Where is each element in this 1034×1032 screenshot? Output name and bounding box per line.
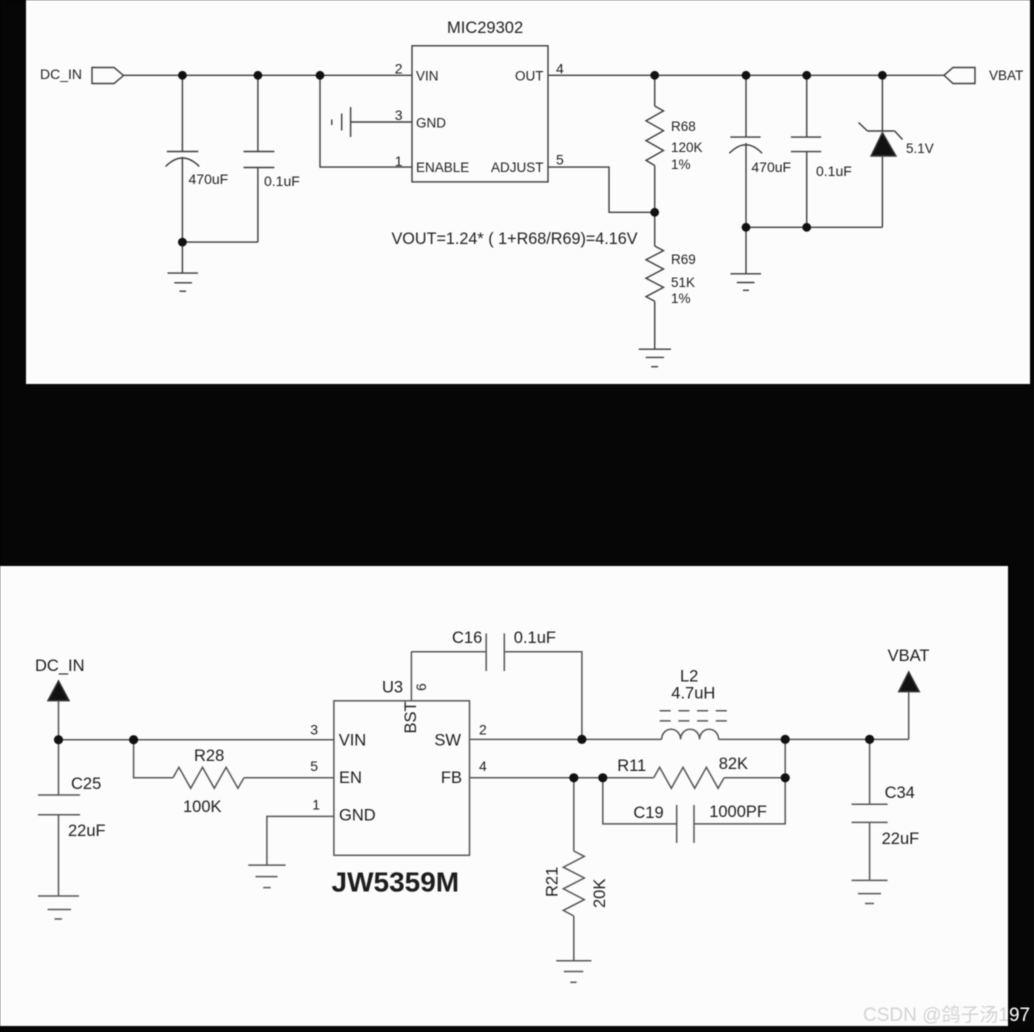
- svg-text:51K: 51K: [671, 275, 695, 290]
- svg-text:ENABLE: ENABLE: [416, 160, 469, 175]
- svg-text:0.1uF: 0.1uF: [514, 629, 556, 647]
- ground at pin1: [248, 864, 285, 866]
- bottom schematic white sheet: [0, 566, 1008, 1026]
- svg-text:FB: FB: [441, 769, 462, 787]
- svg-text:DC_IN: DC_IN: [35, 657, 85, 675]
- ground at GND pin3 (rotated): [351, 121, 412, 123]
- wire OUT rail to VBAT: [548, 74, 944, 76]
- wire GND pin1 to ground: [267, 816, 334, 865]
- ground under R21: [556, 960, 591, 962]
- svg-text:22uF: 22uF: [882, 830, 920, 848]
- svg-text:JW5359M: JW5359M: [332, 867, 460, 898]
- svg-text:22uF: 22uF: [68, 822, 106, 840]
- wire SW node to R11 right node: [784, 739, 786, 777]
- svg-text:U3: U3: [382, 679, 403, 697]
- svg-text:EN: EN: [339, 769, 362, 787]
- svg-text:C19: C19: [633, 804, 663, 822]
- svg-text:R69: R69: [671, 252, 696, 267]
- svg-text:C34: C34: [885, 784, 915, 802]
- port DC_IN connector: [92, 68, 124, 84]
- svg-text:1%: 1%: [671, 291, 691, 306]
- wire joining input cap bottoms: [182, 241, 258, 243]
- svg-text:C25: C25: [71, 775, 101, 793]
- svg-text:4: 4: [556, 61, 564, 77]
- capacitor C-470uF output stem and plates: [745, 75, 747, 137]
- svg-text:470uF: 470uF: [751, 159, 791, 175]
- svg-text:120K: 120K: [671, 140, 703, 155]
- svg-text:SW: SW: [434, 732, 461, 750]
- capacitor C19 branch: [603, 778, 677, 824]
- svg-text:3: 3: [310, 722, 318, 738]
- junction dots top: [178, 71, 887, 247]
- svg-text:R28: R28: [194, 747, 224, 765]
- capacitor C25: [58, 740, 60, 795]
- capacitor C-0.1uF input stem and plates: [257, 75, 259, 151]
- svg-text:L2: L2: [680, 667, 698, 685]
- wire rail to ENABLE pin1: [320, 75, 412, 167]
- svg-text:OUT: OUT: [515, 69, 544, 84]
- svg-text:470uF: 470uF: [189, 171, 229, 187]
- IC U-MIC29302 body: [412, 46, 548, 182]
- wire main input rail DC_IN to VIN: [124, 74, 413, 76]
- svg-text:1000PF: 1000PF: [709, 803, 767, 821]
- IC U3 body: [334, 701, 470, 856]
- wire input rail to VIN: [59, 739, 334, 741]
- svg-text:BST: BST: [402, 701, 420, 733]
- resistor R11: [654, 767, 724, 788]
- svg-text:VOUT=1.24* ( 1+R68/R69)=4.16V: VOUT=1.24* ( 1+R68/R69)=4.16V: [392, 230, 638, 248]
- svg-text:0.1uF: 0.1uF: [816, 163, 852, 179]
- svg-text:6: 6: [413, 683, 429, 691]
- svg-text:VBAT: VBAT: [888, 647, 930, 665]
- ground under C25: [38, 895, 79, 897]
- capacitor C-0.1uF output stem and plates: [806, 75, 808, 137]
- svg-text:R11: R11: [617, 757, 646, 775]
- svg-text:GND: GND: [339, 807, 376, 825]
- capacitor C16: [411, 651, 486, 653]
- svg-text:VIN: VIN: [339, 732, 367, 750]
- wire FB rail: [470, 777, 654, 779]
- power flag DC_IN triangle: [48, 681, 69, 701]
- port VBAT connector: [944, 68, 975, 84]
- svg-text:5: 5: [310, 758, 318, 774]
- wire ADJUST pin5 to divider tap: [548, 167, 655, 212]
- top schematic text labels: [40, 19, 1023, 306]
- svg-text:R21: R21: [544, 867, 562, 897]
- svg-text:3: 3: [395, 107, 403, 123]
- svg-text:MIC29302: MIC29302: [447, 19, 523, 37]
- ground under input caps: [181, 242, 183, 273]
- svg-text:C16: C16: [452, 629, 482, 647]
- top schematic white sheet: [26, 0, 1030, 384]
- resistor R28 branch: [134, 740, 173, 778]
- svg-text:DC_IN: DC_IN: [40, 66, 82, 82]
- svg-text:1: 1: [312, 797, 320, 813]
- svg-text:100K: 100K: [183, 798, 222, 816]
- svg-text:VBAT: VBAT: [989, 68, 1023, 83]
- wire SW rail to inductor: [470, 738, 662, 740]
- bottom schematic text labels: [35, 629, 929, 908]
- svg-text:5.1V: 5.1V: [906, 141, 934, 156]
- capacitor C-470uF input plates: [167, 151, 199, 153]
- svg-text:GND: GND: [416, 116, 446, 131]
- wire output cap ground rail: [746, 226, 882, 228]
- junction dots bottom: [54, 735, 874, 783]
- ground under R69: [639, 348, 671, 350]
- ground under output caps: [745, 227, 747, 273]
- svg-text:R68: R68: [671, 119, 696, 134]
- svg-text:5: 5: [556, 152, 564, 168]
- zener diode D 5.1V: [881, 75, 883, 131]
- dashed core marks L2: [660, 711, 728, 721]
- svg-text:4.7uH: 4.7uH: [671, 685, 715, 703]
- svg-text:4: 4: [479, 758, 487, 774]
- svg-text:2: 2: [479, 722, 487, 738]
- svg-text:CSDN @鸽子汤197: CSDN @鸽子汤197: [863, 1004, 1030, 1026]
- capacitor C34: [869, 739, 871, 804]
- svg-text:1%: 1%: [671, 157, 691, 172]
- svg-text:ADJUST: ADJUST: [491, 160, 544, 175]
- resistor R69: [654, 212, 656, 246]
- svg-text:82K: 82K: [719, 755, 748, 773]
- ground under C34: [852, 879, 888, 881]
- resistor R68: [654, 75, 656, 106]
- wire BST pin6 up: [410, 652, 412, 701]
- svg-text:VIN: VIN: [416, 69, 439, 84]
- svg-text:20K: 20K: [591, 879, 609, 908]
- resistor R21: [573, 778, 575, 851]
- wire inductor to VBAT node: [719, 738, 909, 740]
- inductor L2: [662, 729, 719, 739]
- svg-text:0.1uF: 0.1uF: [264, 173, 300, 189]
- svg-text:1: 1: [395, 153, 403, 169]
- capacitor C-470uF input stem top: [181, 75, 183, 151]
- svg-text:2: 2: [395, 61, 403, 77]
- power flag VBAT triangle: [899, 672, 919, 692]
